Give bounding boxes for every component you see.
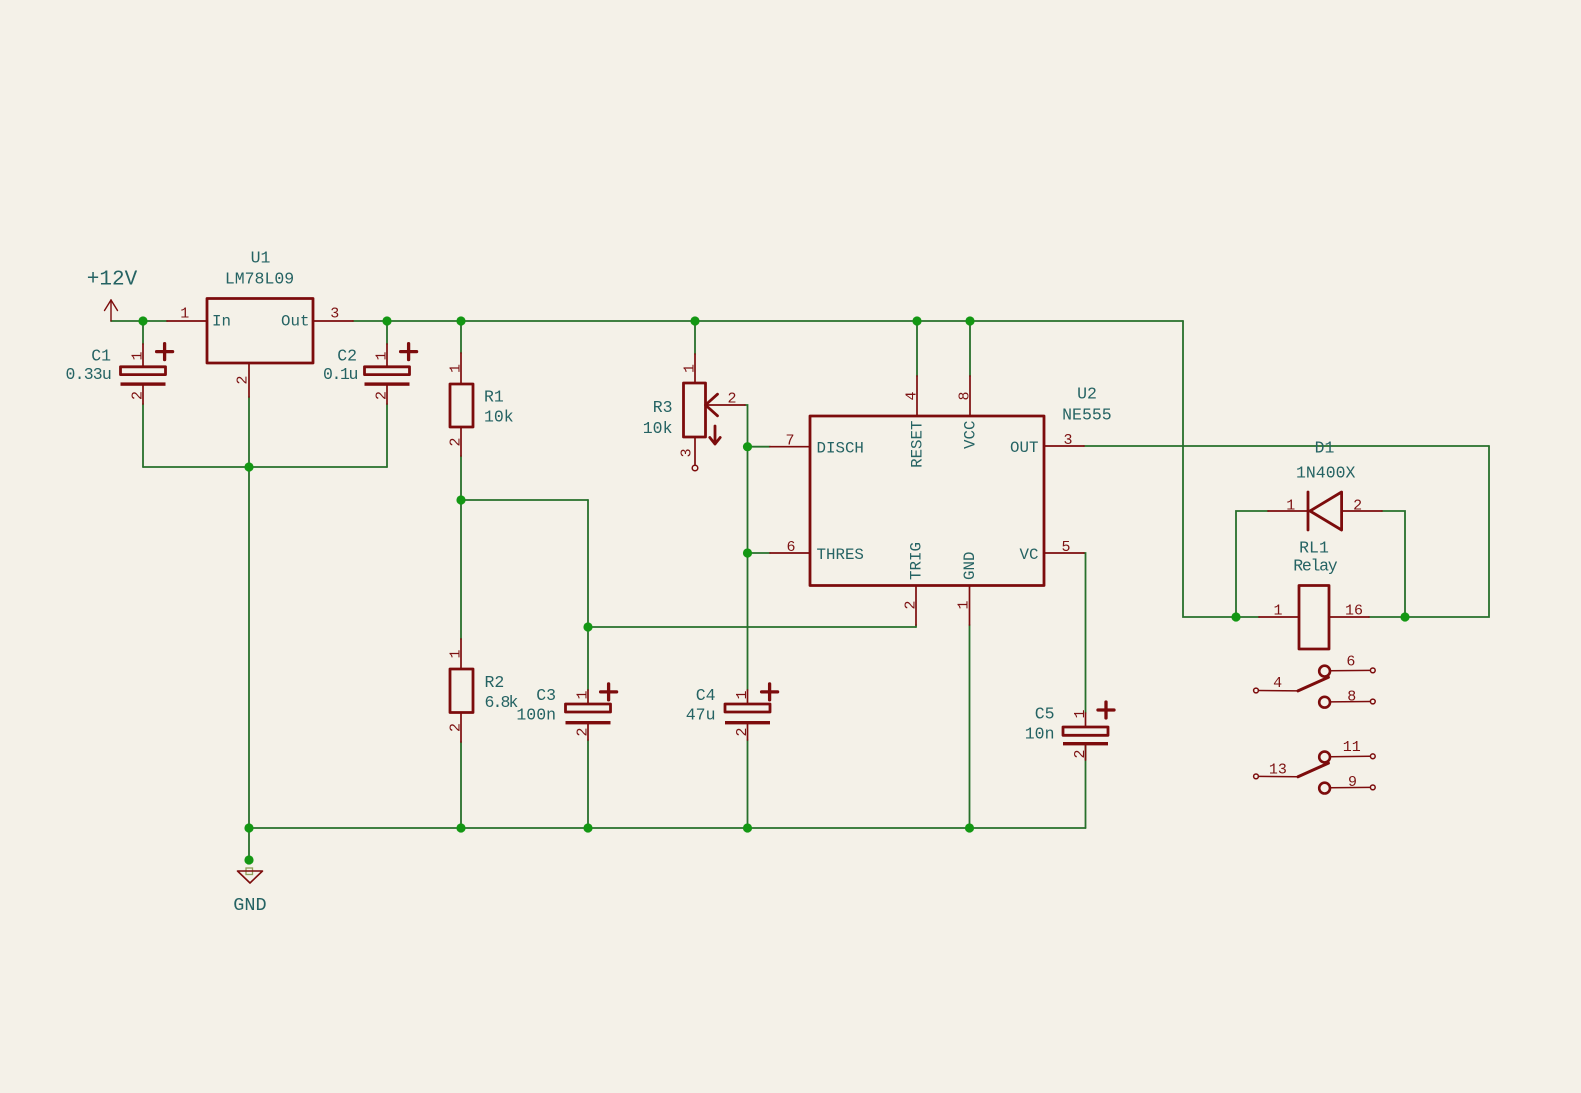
svg-text:RL1: RL1: [1299, 539, 1329, 558]
svg-text:8: 8: [1347, 688, 1356, 705]
wire 555 GND leg x=969.5: [969, 625, 971, 828]
svg-text:1: 1: [734, 690, 751, 699]
wire C2 top leg: [386, 321, 388, 344]
svg-text:1: 1: [682, 364, 699, 373]
wire OUT net right drop: [1405, 446, 1489, 617]
svg-text:C4: C4: [696, 686, 716, 705]
U2 pin 1 GND: [969, 586, 971, 626]
svg-text:R2: R2: [485, 673, 505, 692]
relay contact B (pins 13-11-9): [1254, 752, 1376, 794]
wire x=588 from node to C3: [587, 500, 589, 690]
wire gnd row y=467 C1 to C2: [143, 466, 387, 468]
svg-text:6.8k: 6.8k: [485, 693, 519, 712]
junction R1 bottom node: [456, 495, 465, 504]
timer U2 NE555 body: [810, 416, 1044, 586]
svg-text:3: 3: [1063, 432, 1072, 449]
wire x=461 down to R2: [460, 500, 462, 639]
capacitor C5: [1063, 702, 1114, 760]
svg-text:R3: R3: [653, 398, 673, 417]
capacitor C1: [121, 344, 173, 404]
svg-text:1: 1: [1072, 709, 1089, 718]
svg-text:1: 1: [374, 351, 391, 360]
junction bus C4: [743, 823, 752, 832]
svg-text:NE555: NE555: [1062, 406, 1112, 425]
svg-text:2: 2: [734, 727, 751, 736]
svg-text:2: 2: [727, 391, 736, 408]
junction gnd symbol: [244, 855, 253, 864]
svg-text:47u: 47u: [686, 706, 716, 725]
svg-text:VC: VC: [1020, 546, 1039, 564]
svg-text:C2: C2: [337, 347, 357, 366]
potentiometer R3: [684, 354, 746, 471]
svg-text:2: 2: [1072, 749, 1089, 758]
svg-text:1: 1: [1286, 498, 1295, 515]
wire C1 top leg: [142, 321, 144, 344]
wire TRIG leg: [915, 625, 917, 627]
svg-text:RESET: RESET: [909, 421, 927, 468]
svg-text:9: 9: [1348, 774, 1357, 791]
junction bus R2: [456, 823, 465, 832]
capacitor C4: [725, 684, 778, 740]
svg-text:100n: 100n: [516, 706, 556, 725]
svg-text:TRIG: TRIG: [908, 542, 926, 580]
svg-text:LM78L09: LM78L09: [225, 270, 294, 289]
junction C1 top rail: [138, 316, 147, 325]
svg-text:16: 16: [1345, 603, 1363, 620]
svg-text:2: 2: [374, 391, 391, 400]
svg-text:Out: Out: [281, 313, 309, 331]
U2 pin 8 VCC: [969, 376, 971, 416]
svg-text:C3: C3: [536, 686, 556, 705]
svg-text:2: 2: [235, 375, 252, 384]
svg-text:C1: C1: [91, 347, 111, 366]
junction U1 pin2 gnd row: [244, 462, 253, 471]
svg-text:4: 4: [1273, 675, 1282, 692]
wire R1 bottom to node: [460, 456, 462, 500]
svg-text:D1: D1: [1315, 438, 1335, 457]
svg-text:DISCH: DISCH: [817, 440, 864, 458]
U2 pin 5 VC: [1044, 552, 1084, 554]
svg-text:5: 5: [1061, 539, 1070, 556]
power symbol +12V: [105, 300, 118, 321]
svg-text:1: 1: [448, 364, 465, 373]
wire diode left leg x=1236: [1236, 511, 1268, 617]
U1 pin 2: [248, 363, 250, 397]
wire node row y=500: [461, 499, 588, 501]
regulator U1 body: [207, 299, 313, 364]
junction VCC rail: [965, 316, 974, 325]
relay contact A (pins 4-6-8): [1254, 666, 1376, 708]
svg-text:10k: 10k: [643, 419, 673, 438]
svg-text:0.1u: 0.1u: [323, 365, 358, 384]
svg-text:R1: R1: [484, 388, 504, 407]
wire OUT net horizontal y=446: [1084, 445, 1489, 447]
svg-text:1: 1: [130, 351, 147, 360]
junction C3 top TRIG row: [583, 622, 592, 631]
diode D1: [1268, 492, 1382, 530]
svg-text:13: 13: [1269, 762, 1287, 779]
wire U1 pin2 drop x=249: [248, 397, 250, 467]
ground symbol: [238, 868, 263, 883]
wire R1 top leg: [460, 321, 462, 353]
svg-text:6: 6: [786, 539, 795, 556]
svg-text:3: 3: [679, 448, 696, 457]
wire R3 top leg: [694, 321, 696, 354]
svg-text:7: 7: [785, 433, 794, 450]
svg-text:8: 8: [957, 391, 974, 400]
wire DISCH stub: [748, 446, 771, 448]
U2 pin 4 RESET: [916, 376, 918, 416]
junction R3 top rail: [690, 316, 699, 325]
relay RL1 coil: [1259, 586, 1369, 650]
svg-text:2: 2: [130, 391, 147, 400]
svg-text:U2: U2: [1077, 385, 1097, 404]
wire R3 wiper drop x=747.5: [745, 405, 748, 690]
wire x=249 down to bus: [248, 467, 250, 828]
svg-text:+12V: +12V: [87, 269, 138, 292]
svg-text:1: 1: [180, 306, 189, 323]
svg-text:OUT: OUT: [1010, 439, 1038, 457]
wire TRIG row y=627: [588, 626, 916, 628]
U1 pin 1 In: [167, 320, 207, 322]
U2 pin 6 THRES: [770, 552, 810, 554]
svg-text:11: 11: [1343, 739, 1361, 756]
svg-text:U1: U1: [251, 249, 271, 268]
svg-text:2: 2: [1353, 498, 1362, 515]
svg-text:1: 1: [575, 690, 592, 699]
svg-text:GND: GND: [961, 552, 979, 580]
junction RESET rail: [912, 316, 921, 325]
wire THRES stub: [748, 552, 771, 554]
junction bus 555 GND: [965, 823, 974, 832]
svg-text:Relay: Relay: [1293, 557, 1337, 576]
svg-text:4: 4: [904, 391, 921, 400]
wire VCC leg x=970: [969, 321, 971, 376]
svg-text:VCC: VCC: [962, 421, 980, 449]
U1 pin 3 Out: [313, 320, 353, 322]
wire ground bus y=828: [249, 827, 1086, 829]
junction wiper THRES: [743, 548, 752, 557]
svg-text:10k: 10k: [484, 408, 514, 427]
wire C2 bottom leg: [386, 404, 388, 467]
junction relay pin1: [1231, 612, 1240, 621]
svg-text:10n: 10n: [1025, 725, 1055, 744]
svg-text:THRES: THRES: [817, 546, 864, 564]
wire VC to C5: [1084, 553, 1086, 713]
capacitor C2: [365, 344, 417, 404]
svg-text:2: 2: [448, 437, 465, 446]
svg-text:1: 1: [956, 600, 973, 609]
wire C5 bottom to bus: [1085, 746, 1087, 829]
resistor R2: [450, 639, 473, 742]
svg-text:1: 1: [1273, 603, 1282, 620]
junction relay pin16: [1400, 612, 1409, 621]
junction bus x=249: [244, 823, 253, 832]
wire C4 bottom to bus: [747, 740, 749, 828]
junction C2 top rail: [382, 316, 391, 325]
svg-text:1: 1: [448, 649, 465, 658]
junction wiper DISCH: [743, 442, 752, 451]
svg-text:3: 3: [330, 306, 339, 323]
wire top rail +12V y=321: [353, 320, 1183, 322]
wire R2 bottom to bus: [460, 742, 462, 828]
junction bus C3: [583, 823, 592, 832]
svg-text:6: 6: [1346, 653, 1355, 670]
junction R1 top rail: [456, 316, 465, 325]
svg-text:0.33u: 0.33u: [65, 365, 111, 384]
wire relay pin1 stub: [1236, 616, 1259, 618]
svg-text:1N400X: 1N400X: [1296, 464, 1356, 483]
wire C3 bottom to bus: [587, 740, 589, 828]
svg-text:In: In: [212, 313, 231, 331]
capacitor C3: [566, 684, 617, 740]
wire gnd stub below bus: [248, 828, 250, 860]
wire top rail +12V left segment: [111, 320, 167, 322]
U2 pin 3 OUT: [1044, 445, 1084, 447]
resistor R1: [450, 353, 473, 456]
wire relay pin16 stub: [1369, 616, 1405, 618]
wire C1 bottom leg: [142, 404, 144, 467]
U2 pin 2 TRIG: [915, 586, 917, 626]
svg-text:GND: GND: [233, 895, 266, 916]
U2 pin 7 DISCH: [770, 446, 810, 448]
svg-text:C5: C5: [1035, 705, 1055, 724]
wire RESET leg x=917: [916, 321, 918, 376]
wire diode right leg x=1405: [1382, 511, 1405, 617]
wire right drop from rail to relay row: [1183, 321, 1236, 617]
svg-text:2: 2: [575, 727, 592, 736]
svg-text:2: 2: [903, 600, 920, 609]
svg-text:2: 2: [448, 723, 465, 732]
